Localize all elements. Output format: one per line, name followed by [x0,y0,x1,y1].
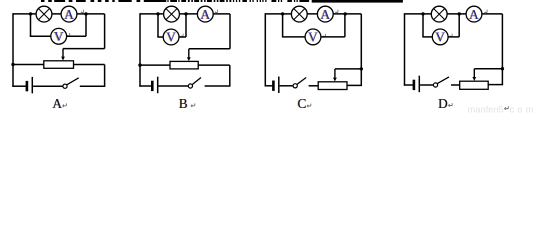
wire: voltmeter left lead A [30,35,51,37]
svg-text:A: A [52,96,62,111]
wire: top row A [13,13,105,15]
wire: rheostat right lead D [488,84,503,86]
rheostat A slider arrow [61,49,65,61]
paragraph mark [63,103,67,107]
wire: slider top lead D [474,68,502,70]
wire: rheostat left lead B [140,64,170,66]
wire: rheostat right lead A [74,64,105,66]
node: rheostat tap B [138,63,141,66]
wire: left rail B [139,13,141,87]
wire: voltmeter left riser C [282,14,284,37]
wire: voltmeter right lead B [179,36,186,38]
switch A [63,78,79,88]
wire: voltmeter right riser B [185,14,187,37]
wire: bottom left lead D [404,84,413,86]
wire: bottom left lead B [139,85,151,87]
svg-text:V: V [54,29,64,44]
lamp L-A [36,6,52,22]
paragraph mark [67,33,69,37]
paragraph mark [323,34,325,38]
paragraph mark [307,104,311,108]
paragraph mark [81,10,83,14]
wire: middle row to slider A [63,48,105,50]
wire: right vertical upper B [229,14,231,49]
wire: top row B [140,13,230,15]
wire: voltmeter right lead D [448,36,459,38]
voltmeter V-D [432,29,448,45]
ammeter A-C [317,6,333,22]
node: junction left B [156,12,159,15]
rheostat C slider arrow [333,69,337,82]
svg-text:A: A [64,7,74,22]
wire: rheostat left lead A [13,64,44,66]
battery D [414,76,419,93]
option label A [52,96,63,111]
svg-text:A: A [321,7,331,22]
wire: voltmeter right riser A [85,14,87,36]
lamp L-D [431,6,447,22]
wire: right vertical D [501,14,503,85]
wire: voltmeter left lead B [157,36,163,38]
wire: left rail A [12,13,14,87]
wire: bottom left lead C [265,85,273,87]
wire: right vertical lower A [104,65,106,87]
node: junction left A [29,12,32,15]
option label B [178,96,188,111]
wire: left rail D [404,13,406,86]
node: junction left D [421,12,424,15]
wire: battery to switch D [420,84,433,86]
svg-text:A: A [201,7,211,22]
wire: voltmeter right riser D [458,14,460,37]
node: slider junction C [360,67,363,70]
paragraph mark [181,34,183,38]
node: junction mid B [184,12,187,15]
battery A [27,77,32,94]
voltmeter V-B [163,29,179,45]
svg-text:com: com [510,104,537,114]
wire: voltmeter left riser A [30,14,32,36]
watermark [468,104,537,114]
paragraph mark [485,10,487,14]
svg-text:V: V [435,30,445,45]
paragraph mark [449,103,453,107]
option label C [297,96,307,111]
paragraph mark [450,34,452,38]
rheostat B body [170,61,198,69]
ammeter A-B [197,6,213,22]
svg-text:V: V [308,30,318,45]
battery C [273,77,278,94]
node: rheostat tap A [11,63,14,66]
node: junction mid D [458,12,461,15]
wire: switch to rheostat C [309,85,319,87]
rheostat D slider arrow [472,69,476,81]
wire: slider top lead C [335,68,361,70]
rheostat D body [460,81,489,89]
svg-text:D: D [438,96,448,111]
lamp L-C [291,6,307,22]
svg-text:B: B [179,96,188,111]
rheostat C body [318,82,347,90]
wire: right vertical upper A [104,14,106,49]
wire: voltmeter right lead A [67,35,86,37]
lamp L-B [164,6,180,22]
switch D [433,77,449,87]
svg-text:manfen5: manfen5 [468,104,504,114]
wire: battery to switch B [159,85,189,87]
cropped text remnants along top edge [41,0,403,3]
wire: right vertical C [360,14,362,86]
wire: voltmeter left riser D [422,14,424,37]
wire: right vertical lower B [229,65,231,86]
wire: voltmeter left lead D [422,36,432,38]
ammeter A-A [61,6,77,22]
node: slider junction D [501,67,504,70]
wire: voltmeter left riser B [157,14,159,37]
battery B [152,77,157,94]
node: junction right A [84,12,87,15]
switch B [188,78,201,89]
wire: battery to switch C [280,85,294,87]
ammeter A-D [466,6,482,22]
paragraph mark [336,10,338,14]
paragraph mark [191,103,195,107]
wire: voltmeter right riser C [344,14,346,37]
node: junction right C [344,12,347,15]
svg-text:V: V [166,30,176,45]
paragraph mark [505,106,509,110]
rheostat B slider arrow [187,49,191,61]
voltmeter V-C [305,29,321,45]
wire: switch to rheostat D [451,84,460,86]
wire: switch to corner B [205,85,231,87]
wire: switch to corner A [80,85,106,87]
svg-text:C: C [298,96,307,111]
svg-text:A: A [469,7,479,22]
wire: bottom left lead A [12,85,26,87]
voltmeter V-A [51,28,67,44]
wire: left rail C [264,13,266,86]
option label D [438,96,448,111]
paragraph mark [215,10,217,14]
rheostat A body [44,61,74,69]
wire: battery to switch A [33,85,63,87]
wire: rheostat right lead C [347,84,362,86]
wire: top row D [405,13,503,15]
wire: top row C [265,13,361,15]
node: junction left C [281,12,284,15]
wire: middle row to slider B [189,48,230,50]
wire: voltmeter left lead C [282,36,305,38]
switch C [293,78,306,88]
wire: rheostat right lead B [198,64,230,66]
wire: voltmeter right lead C [321,36,345,38]
